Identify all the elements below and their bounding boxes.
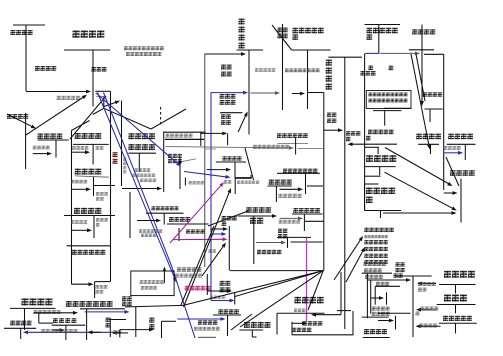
- label qitayewuchengben: [277, 133, 308, 138]
- blue steep A with arrowhead: [98, 93, 175, 278]
- line sale of materials: [166, 147, 290, 148]
- label difuhuokuan: [72, 146, 88, 150]
- label shengchanchengben vertical: [239, 19, 245, 49]
- arrow zibengongji to yinhangcunkuan: [26, 91, 86, 93]
- diag bank to caigou: [104, 108, 151, 129]
- label zaituwuzi: [129, 133, 156, 139]
- label yinhangcunkuan top: [73, 31, 105, 38]
- zaituwuzi / cailiaocaigou: [121, 101, 123, 187]
- blue xianjinzhekou arrow: [444, 152, 458, 154]
- blue arrow to zhizaofeiyong: [184, 172, 226, 177]
- label bold crimson: [185, 286, 211, 291]
- qitayewuchengben vertical: [295, 138, 297, 155]
- yingfuzhangkuan account box: [71, 121, 89, 131]
- bottom connector: [235, 177, 252, 179]
- label xiaoshouchongjian: [71, 220, 87, 224]
- transfer line 3: [291, 241, 323, 243]
- diag F1b from yingyewaizhichu: [183, 271, 323, 306]
- blue steep B lower: [172, 267, 195, 338]
- label jiezhuanyixiao: [285, 68, 320, 72]
- label zhuyingyewushouru: [367, 28, 398, 34]
- blue arrow to caiwufeiyong: [177, 318, 220, 320]
- gray arrow to yingshouzhangkuan: [380, 52, 415, 54]
- blue steep B: [104, 93, 173, 268]
- path to bank right h: [424, 53, 444, 55]
- open rect: [291, 322, 293, 335]
- label pankui struck: [41, 329, 77, 333]
- arrow chengdui: [71, 188, 86, 190]
- bennianlirun account: [328, 56, 362, 58]
- small bracket: [200, 132, 202, 147]
- diag to yushouzhangkuan: [416, 54, 425, 101]
- label lingyongcailiao: [135, 168, 151, 172]
- arrow to daichuli: [34, 312, 73, 314]
- tiny label above arrow: [140, 179, 156, 183]
- label guanlifeiyong BL: [10, 321, 31, 326]
- label jisuanyingyeshui: [278, 194, 301, 198]
- blue stub: [365, 52, 380, 54]
- divider vertical: [364, 54, 366, 211]
- diag F1a from xiaoshoufeiyong: [235, 271, 323, 297]
- zhuyingyewushouru: [365, 24, 401, 26]
- label leijizhejiu BL: [53, 318, 76, 323]
- diag to yingyu: [231, 314, 252, 330]
- blue main vertical: [210, 93, 212, 301]
- label touzishouyi: [366, 155, 396, 162]
- label qiyefachucailiao: [166, 134, 193, 138]
- label yingyugongji: [244, 322, 271, 328]
- gray transfer to bennianlirun: [297, 148, 323, 150]
- label xiaoshoucailiao struck: [253, 145, 289, 149]
- label yingshoupiaoju: [416, 134, 441, 140]
- label yinhangcunkuan BR: [444, 271, 475, 278]
- arrow into shishouziben: [7, 114, 32, 126]
- arrow left into lirunfenpei: [316, 314, 341, 316]
- bank small branch v: [103, 97, 105, 109]
- label zhifudaikuandeng: [257, 250, 281, 254]
- arrow kucun: [251, 92, 276, 94]
- second long vertical x=341: [340, 272, 342, 315]
- diag A2: [181, 226, 214, 305]
- diag caigou up: [151, 109, 186, 129]
- black arrow left 2: [117, 332, 128, 334]
- label leijizhejiu mid: [169, 217, 190, 222]
- label cailiaochengbenchayi: [152, 206, 179, 210]
- diag through bank label: [446, 157, 459, 186]
- label yufuzhangkuan: [74, 208, 101, 214]
- magenta diagonal arrow: [170, 186, 221, 243]
- label yingjiaoshuifei mid: [269, 180, 292, 185]
- L arrow: [119, 330, 121, 338]
- arrow into zaituwuzi top: [104, 103, 115, 107]
- arrow into fachucailiao bottom: [122, 188, 157, 190]
- arrow jiti suodeshui: [280, 217, 299, 219]
- label zhizaofeiyong: [223, 156, 242, 160]
- bank mid vertical: [253, 216, 255, 264]
- diag D1: [334, 240, 360, 280]
- label chengduihuipiao: [71, 180, 87, 184]
- label panying: [113, 330, 121, 334]
- blue flat diagonal: [96, 93, 177, 163]
- arrow into bank right: [444, 192, 453, 194]
- label changbu: [209, 249, 216, 252]
- up arrow: [163, 272, 165, 284]
- xiaoshoufeiyong: [220, 281, 231, 286]
- arrow into qingli: [367, 279, 406, 281]
- label yingfupiaoju: [75, 169, 102, 175]
- long diag right of zhizao: [245, 148, 254, 180]
- label chanpinyanshou: [255, 68, 275, 72]
- yingfupiaoju vertical: [93, 177, 95, 196]
- label yingyeshuijinjifujia: [283, 169, 318, 173]
- arrow to yingyeshuijin: [280, 188, 298, 190]
- arrow to xiaoshoufeiyong: [207, 290, 227, 292]
- dashed vertical: [160, 107, 162, 125]
- label xianjinzhekou: [444, 146, 461, 150]
- label gouliao red: [113, 152, 118, 164]
- label yingjiaoshuifei top: [124, 46, 164, 50]
- arrow Eb: [384, 172, 452, 208]
- blue arrow to xiaoshoufeiyong: [211, 300, 230, 302]
- label yingjiaoshuifei xiangxiang: [369, 93, 408, 97]
- yingyewaizhichu T top: [125, 305, 183, 307]
- label daichulicaichansunyi: [66, 301, 113, 307]
- arrow into zhizaofeiyong: [207, 169, 226, 171]
- shishouziben account: [25, 113, 27, 169]
- arrow into gudingzichan: [33, 153, 47, 155]
- zhuyingyewuchengben: [272, 25, 292, 50]
- arrow bottom of left border: [72, 283, 89, 285]
- blue arrow to yingyewaizhichu: [85, 311, 125, 313]
- label jieshoujuanzeng: [35, 66, 56, 71]
- underline yingfupiaoju: [75, 176, 109, 177]
- diag yingfuzhangkuan to bank: [70, 96, 106, 139]
- kucunshangpin vertical: [282, 24, 284, 110]
- label yingshouzhangkuan: [412, 29, 435, 34]
- arrow left from yuancailiao: [421, 309, 437, 311]
- label suodeshuifeiyong: [293, 208, 320, 213]
- label qitayingshoukuan: [443, 316, 472, 321]
- T-account yinhangcunkuan top (bank): [64, 49, 110, 51]
- fan horizontal: [230, 270, 324, 272]
- label shishouziben: [7, 114, 28, 119]
- xiangshui box: [366, 91, 411, 109]
- long mid vertical: [204, 54, 206, 268]
- arrow left from qitayingshou: [421, 325, 441, 327]
- label canliao vertical: [106, 318, 110, 328]
- arrow into chayi: [137, 220, 156, 222]
- transfer line 2: [304, 220, 323, 222]
- label gudingzichan BL: [22, 298, 53, 305]
- T-account gudingzichan top-left: [38, 139, 69, 141]
- bank small branch h: [96, 96, 104, 98]
- label gudingzichan TL: [38, 133, 63, 139]
- zaijian gongcheng T: [220, 112, 242, 114]
- arrow left from bank BR: [422, 282, 436, 284]
- transfer line 1: [307, 185, 323, 187]
- label zibengongji: [11, 30, 33, 35]
- bank right vertical: [460, 179, 462, 223]
- label chushougudingzichan: [34, 310, 61, 314]
- label lirunfenpei: [295, 297, 324, 304]
- small arrow right: [371, 297, 379, 299]
- T-account yufuzhangkuan: [64, 215, 115, 217]
- feeder vertical: [206, 274, 208, 295]
- arrow right 2: [378, 320, 389, 322]
- pink vertical: [306, 238, 308, 321]
- label caiwufeiyong right: [448, 134, 473, 140]
- black arrow left panying: [93, 331, 102, 333]
- yingyewaishouru box: [365, 183, 379, 185]
- arrow to zaijiangongcheng: [201, 132, 223, 134]
- diag A1 with arrowhead: [184, 193, 230, 307]
- down arrow: [421, 95, 423, 101]
- label yinhangcunkuan right struck: [450, 170, 475, 176]
- arrow Ea: [385, 148, 448, 184]
- diag F2 from yingyugongji: [240, 271, 323, 327]
- label zhuyingyewuchengben: [293, 28, 324, 34]
- label cailiaocaigou: [129, 144, 156, 150]
- label qitahuobizijin: [72, 250, 106, 255]
- short diag arrow: [202, 247, 223, 276]
- bank right branch vertical: [95, 90, 110, 92]
- label yinhangcunkuan mid: [246, 207, 271, 213]
- label zhifugongzi: [189, 181, 204, 184]
- box jiezhuan caigou: [131, 271, 174, 296]
- label canliao2 vertical: [149, 318, 154, 330]
- arrow into yufuzhangkuan: [71, 229, 87, 231]
- receiving vertical: [161, 321, 163, 338]
- small down arrow: [179, 158, 181, 162]
- path to bank right v: [443, 54, 445, 190]
- arrow right: [293, 322, 303, 324]
- bank mid T-arrow: [238, 215, 272, 217]
- label yingfuzhangkuan: [75, 133, 102, 139]
- small vertical: [184, 178, 186, 186]
- arrow into yingfuzhangkuan: [72, 151, 85, 153]
- arrow E2: [383, 212, 452, 214]
- diag to yingshoupiaoju: [411, 54, 429, 145]
- label bennianlirun vertical: [326, 60, 332, 90]
- T-account zibengongji (capital reserve): [13, 24, 45, 26]
- label caiwufeiyong bottom: [219, 309, 239, 314]
- label yingyewaishouru: [366, 188, 395, 195]
- arrow zhuanrufeiyong: [324, 129, 338, 131]
- qitayewuchengben T top: [278, 143, 309, 145]
- vertical x130: [129, 192, 131, 238]
- slanted line from leiji: [208, 211, 248, 226]
- label yufuzhangkuan small: [177, 267, 201, 271]
- blue arrow to shengchanchengben: [211, 92, 243, 94]
- arrow shishouziben to bank: [26, 98, 83, 136]
- label yifukuan: [92, 67, 107, 72]
- label jitizhejiu: [186, 229, 205, 233]
- label yingfugouhuokuan: [57, 96, 80, 100]
- blue arrow to guanlifeiyong: [211, 233, 221, 235]
- label jiaoshui: [250, 218, 263, 224]
- facuocailiao T: [163, 131, 165, 192]
- T-account qitahuobizijin: [67, 245, 111, 247]
- left border vertical: [71, 131, 73, 285]
- arrow into shengchanchengben: [205, 53, 241, 55]
- yingyewaizhichu: [122, 296, 132, 301]
- arrow into yingyewaizhichu mid: [256, 242, 281, 244]
- note line1: [364, 228, 393, 232]
- short diag from branch: [93, 108, 104, 114]
- blue long arrow left: [28, 331, 120, 333]
- label qitayewushouru: [368, 130, 394, 135]
- label yuancailiao: [444, 295, 467, 302]
- arrow to zhuyingchengben: [292, 93, 300, 95]
- arrow qitayewushouru to bennianlirun: [353, 143, 398, 145]
- label guanlifeiyong mid: [222, 216, 237, 221]
- label mairujiajian: [33, 146, 50, 150]
- yingfuzhigongxinchou: [179, 162, 181, 189]
- yingshouzhangkuan: [409, 49, 434, 51]
- arrow zhizao to shengchan: [238, 116, 245, 132]
- receiving T top: [162, 320, 177, 322]
- transfer vertical x=323.5: [308, 92, 324, 94]
- label yingjiaoshuifei BR: [364, 329, 387, 334]
- note row7: [364, 262, 386, 266]
- diag F3 from lirunfenpei: [308, 271, 323, 310]
- label gouhuo: [96, 146, 104, 150]
- magenta horizontal arrow: [173, 238, 223, 240]
- step line: [39, 322, 53, 324]
- small arrow: [53, 329, 60, 331]
- label gudingzichanqingli r1: [396, 262, 405, 266]
- black arrow to guanli: [210, 228, 223, 230]
- L arrow right: [120, 329, 149, 331]
- diag D2: [346, 251, 363, 282]
- label yushouzhangkuan: [423, 92, 442, 96]
